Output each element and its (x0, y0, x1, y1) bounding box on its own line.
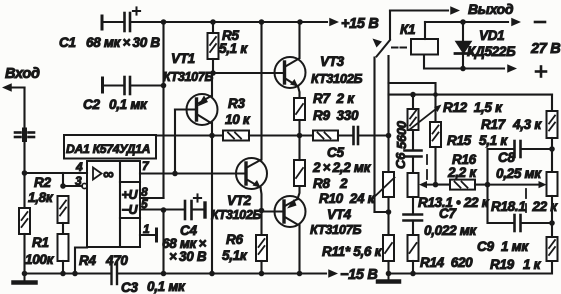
wire vertical from +15 rail down to op-amp pin 8 jog (162, 22, 164, 198)
junction 27V minus rail / VD1 (460, 19, 466, 25)
junction bridge node (485, 182, 491, 188)
node VT2 emitter / VT4 base / R6 (259, 208, 265, 214)
wire R7 to R9 node (298, 120, 300, 136)
wiper arrow of R13.1 (423, 184, 436, 186)
wire from C2 to C-line junction (131, 84, 164, 86)
svg-text:2,2 к: 2,2 к (447, 165, 477, 180)
wire VT2 collector up to +15 rail (260, 22, 262, 160)
svg-text:1 мк: 1 мк (501, 239, 529, 254)
capacitor C3 (112, 263, 118, 284)
wire R2 to R4 (62, 223, 64, 234)
svg-text:VT2: VT2 (227, 193, 252, 208)
polarity plus of C1 (133, 7, 140, 14)
resistor R18.1 (pot section) (547, 172, 558, 196)
arrow Vyhod output (450, 6, 460, 14)
resistor R17 (547, 111, 558, 138)
wire R6 to bottom rail (260, 261, 262, 274)
arrow -15V rail end (328, 269, 338, 277)
relay K1 contact blade (377, 40, 391, 57)
ground symbol right (378, 274, 399, 282)
junction bottom rail / VT1 collector line (209, 271, 215, 277)
resistor R13.1 (pot section) (408, 173, 419, 197)
capacitor C9 (515, 215, 521, 231)
wire R3 row from DA1 label box to R3 (156, 134, 223, 136)
svg-text:0,022 мк: 0,022 мк (424, 223, 477, 238)
wire C4 to end bar (193, 208, 204, 210)
wire R10 top (387, 136, 389, 173)
wiper arrow of R18.1 (488, 184, 543, 186)
svg-text:68 мк × 30 В: 68 мк × 30 В (86, 35, 160, 50)
wire VT1 emitter lead up (211, 73, 213, 96)
wire R11 to right ground rail (387, 261, 389, 274)
transistor VT1 (PNP KT3107B) (176, 94, 218, 125)
wire relay node to R15 branch (389, 83, 436, 95)
wire R14 to right ground rail (412, 261, 414, 274)
svg-text:R19: R19 (490, 257, 515, 272)
svg-text:С8: С8 (498, 150, 515, 165)
op-amp inverting input circle (82, 183, 87, 188)
wire VT2 emitter node to R6 (260, 211, 262, 236)
wire VT3 emitter to R7 (298, 87, 300, 99)
wire R5 to VT1 emitter / VT3 base node (212, 59, 214, 73)
wire R1 to ground (23, 234, 25, 274)
svg-text:R1: R1 (32, 235, 49, 250)
plus terminal label of 27V (536, 67, 546, 77)
wire R9 to C5 (338, 134, 353, 136)
junction top rail / C2-line (161, 19, 167, 25)
svg-text:1 к: 1 к (523, 257, 542, 272)
svg-text:R9 330: R9 330 (313, 108, 359, 123)
resistor R15 (430, 122, 441, 147)
wire VT1 collector down to bottom rail (211, 123, 213, 274)
svg-text:R3: R3 (228, 96, 245, 111)
wire C6 to R13.1 (412, 157, 414, 174)
svg-text:1,8к: 1,8к (28, 190, 54, 205)
wire R17 to C8 node (551, 138, 553, 149)
wire +15V rail terminal bar (101, 16, 104, 29)
wire +15 rail to R5 (212, 22, 214, 33)
resistor R3 (223, 131, 249, 141)
wire output to Vyhod arrow (390, 9, 448, 11)
resistor R10 (383, 172, 394, 197)
wire VD1 anode (462, 22, 464, 42)
resistor R1 (19, 208, 30, 234)
junction filter row / R15 branch (433, 92, 438, 97)
svg-text:R14 620: R14 620 (420, 255, 473, 270)
svg-text:0,25 мк: 0,25 мк (496, 166, 542, 181)
capacitor C7 (404, 215, 423, 221)
junction pin5 wire / C-line lower (161, 207, 167, 213)
svg-text:100к: 100к (25, 252, 55, 267)
svg-text:Вход: Вход (5, 66, 40, 82)
svg-text:Выход: Выход (468, 1, 514, 17)
minus terminal label of 27V (535, 21, 545, 24)
svg-text:∞: ∞ (103, 166, 114, 183)
svg-text:0,1 мк: 0,1 мк (109, 97, 148, 112)
svg-text:С6: С6 (393, 152, 408, 169)
svg-text:4,3 к: 4,3 к (512, 117, 542, 132)
wire VT4 collector down to bottom rail (298, 225, 300, 274)
wire VT2 emitter down (261, 188, 262, 211)
node R7 / R9 / R3 / R8 (297, 133, 303, 139)
svg-text:5600: 5600 (394, 120, 409, 149)
svg-text:4: 4 (75, 160, 83, 174)
wire relay contact line to R10 node (375, 211, 389, 213)
svg-text:С9: С9 (477, 239, 494, 254)
svg-text:КД522Б: КД522Б (467, 44, 516, 59)
junction ground rail / op-amp bottom (72, 271, 78, 277)
op-amp DA1 triangle-infinity symbol (93, 166, 114, 183)
junction op-amp output / VT1 base line (172, 171, 178, 177)
svg-text:C1: C1 (59, 35, 76, 50)
svg-text:КТ3102Б: КТ3102Б (311, 71, 363, 86)
junction 27V plus rail / VD1 (460, 66, 466, 72)
wire R12 to C6 (412, 130, 414, 150)
svg-text:VD1: VD1 (479, 28, 504, 43)
svg-text:+U: +U (122, 188, 139, 202)
wire relay contact fixed terminal up to Vyhod wire (389, 11, 391, 39)
wire op-amp pin 7 output to VT2 base (140, 172, 246, 174)
wire C7 to R14 (412, 221, 414, 236)
junction top rail / R5 (210, 19, 216, 25)
junction bottom rail / VT4 collector (297, 271, 303, 277)
wire op-amp pin 5 to C4 (140, 208, 184, 210)
resistor R11 (383, 235, 394, 261)
wire 27V minus rail (425, 21, 508, 23)
junction ground rail / R4 (60, 271, 66, 277)
svg-text:DA1 К574УД1А: DA1 К574УД1А (66, 142, 150, 156)
wire VD1 cathode (462, 54, 464, 69)
junction top rail / VT3 collector (297, 19, 303, 25)
terminal bar right of C4 (203, 203, 206, 217)
trimmer arrow of R12 (409, 107, 439, 131)
wire wiper row R13.1 to R16 (436, 184, 451, 186)
resistor R9 (313, 131, 338, 141)
svg-text:1: 1 (143, 222, 150, 236)
leader line of R10 label (370, 178, 395, 202)
svg-text:−U: −U (122, 203, 139, 217)
svg-text:КТ3107Б: КТ3107Б (163, 70, 213, 84)
op-amp DA1 inner divider (119, 161, 121, 247)
wire bridge node down to C9 row (488, 185, 514, 223)
svg-text:VT1: VT1 (171, 51, 195, 66)
wire relay contact common down (373, 58, 375, 213)
ground symbol left (14, 274, 36, 283)
relay K1 mechanical link dashes (392, 47, 406, 49)
resistor R14 (408, 235, 419, 261)
wire input vertical down to R1 (23, 88, 25, 209)
wire VT1 base vertical from op-amp output (174, 110, 176, 174)
wire VT1 base horizontal (175, 108, 197, 110)
wire VT3 base from R5/VT1 node (213, 72, 285, 74)
transistor VT2 (NPN KT3102B) (236, 158, 267, 189)
svg-text:27 В: 27 В (530, 41, 560, 57)
wire C8 to R17 column (522, 148, 553, 150)
svg-text:C7: C7 (439, 206, 457, 221)
arrow 27V minus rail (511, 18, 521, 26)
wire +15V rail from input terminal to C1 (102, 21, 123, 23)
junction filter row / R12 (410, 92, 416, 98)
wire R9-node to R8 (298, 136, 300, 161)
junction right ground rail / R11 (386, 271, 392, 277)
wire R4 to ground rail (62, 261, 64, 274)
wire op-amp pin 4 input (25, 172, 88, 174)
gang link dashes left (426, 155, 428, 179)
wire R10 to node (387, 197, 389, 212)
svg-text:2 × 2,2 мк: 2 × 2,2 мк (312, 160, 372, 175)
junction R17 column / C8 (549, 146, 555, 152)
wire filter top row (389, 94, 553, 96)
resistor R5 (208, 33, 219, 59)
svg-text:R6: R6 (226, 232, 243, 247)
op-amp DA1 column divider lower (120, 217, 140, 219)
junction top rail / VT2 collector (259, 19, 265, 25)
capacitor C4 (185, 201, 192, 219)
wire input horizontal (11, 86, 25, 88)
junction C5 wire / R10 line (386, 133, 392, 139)
gang link dashes right (525, 189, 527, 212)
wire into op-amp pin 8 (140, 197, 164, 199)
wire node to R11 (387, 212, 389, 235)
wire from pin4 net down to pin3 node (62, 173, 64, 186)
svg-text:3: 3 (75, 174, 82, 188)
svg-text:× 30 В: × 30 В (169, 249, 207, 264)
resistor R8 (294, 160, 305, 186)
svg-text:R17: R17 (481, 117, 507, 132)
svg-text:R4 470: R4 470 (79, 253, 128, 268)
wire R9 node to R9 body (300, 134, 314, 136)
resistor R16 (450, 180, 475, 190)
wire +15V rail from C1 to arrow (131, 21, 327, 23)
capacitor C2 (125, 77, 131, 94)
polarity plus of C4 (194, 194, 201, 201)
svg-text:+15 В: +15 В (341, 16, 379, 32)
wire R12 top (412, 95, 414, 109)
svg-text:КТ3107Б: КТ3107Б (310, 222, 362, 237)
op-amp U1 DA1 body (87, 161, 140, 247)
wire C8 node to R18.1 (551, 149, 553, 172)
resistor R2 (58, 196, 69, 223)
op-amp DA1 column divider upper (120, 181, 140, 183)
connector feed-through symbol on input line (15, 130, 34, 140)
node R5 / VT3 base / VT1 emitter (210, 70, 216, 76)
capacitor C6 (405, 151, 422, 157)
wire C2 terminal bar (101, 78, 104, 92)
junction R19 column / C9 (549, 220, 555, 226)
wire op-amp pin 3 input (63, 185, 82, 187)
wire R15 to wiper row (434, 147, 436, 185)
wire C9 to R19 column (522, 222, 553, 224)
capacitor C5 (354, 127, 359, 144)
wire VT3 collector up to +15 rail (298, 22, 300, 58)
arrow input (points left) (2, 83, 12, 91)
wire relay blade to filter column (387, 56, 389, 136)
svg-text:R12 1,5 к: R12 1,5 к (443, 100, 503, 115)
svg-text:R7 2 к: R7 2 к (313, 91, 355, 106)
svg-text:0,1 мк: 0,1 мк (147, 279, 186, 294)
terminal bar on pin 1 (155, 229, 158, 241)
wire op-amp bottom to ground rail (75, 248, 87, 274)
svg-text:−15 В: −15 В (340, 267, 378, 283)
svg-text:R11* 5,6 к: R11* 5,6 к (322, 244, 383, 259)
svg-text:5,1 к: 5,1 к (479, 133, 508, 148)
wire VT4 emitter up to R8 (298, 186, 300, 199)
svg-text:5,1к: 5,1к (222, 248, 248, 263)
wire R3 to R7 node (249, 134, 300, 136)
svg-text:VT4: VT4 (327, 207, 352, 222)
junction bottom rail / C-line (161, 271, 167, 277)
svg-text:R10 24 к: R10 24 к (319, 191, 376, 206)
resistor R12 (408, 109, 419, 130)
svg-text:C5: C5 (327, 145, 344, 160)
capacitor C1 (125, 13, 131, 31)
svg-text:C2: C2 (83, 97, 100, 112)
junction ground rail / input line (22, 271, 28, 277)
wire relay coil top terminal (424, 22, 426, 39)
svg-text:КТ3102Б: КТ3102Б (211, 208, 261, 222)
wire C-line lower segment to bottom rail (162, 210, 164, 274)
svg-text:R2: R2 (34, 175, 51, 190)
wire R18.1 to C9 node (551, 196, 553, 223)
wire bottom rail from C3 to -15V arrow (118, 272, 326, 274)
wire filter row right corner down to R17 (551, 95, 553, 111)
arrow 27V plus rail (507, 64, 517, 72)
wire from C2 terminal to C2 (103, 84, 124, 86)
resistor R19 (547, 237, 558, 261)
svg-text:R15: R15 (447, 133, 472, 148)
node R10 / R11 / relay line (386, 209, 392, 215)
relay K1 coil (411, 39, 438, 55)
wire R15 branch down (434, 95, 436, 122)
junction wiper row / R15 (433, 182, 439, 188)
wire op-amp pin 1 (140, 234, 156, 236)
op-amp DA1 label box (64, 135, 156, 159)
wire bottom rail left segment (25, 272, 111, 274)
junction input line / pin4 wire (22, 170, 28, 176)
resistor R6 (256, 235, 267, 261)
wire R13.1 to C7 (412, 197, 414, 215)
transistor VT3 (NPN KT3102B) (275, 57, 306, 88)
svg-text:10 к: 10 к (225, 112, 251, 127)
junction bottom rail / R6 (259, 271, 265, 277)
resistor R4 (58, 234, 69, 261)
resistor R7 (294, 98, 305, 120)
diode VD1 (KD522B) (455, 42, 472, 54)
capacitor C8 (515, 141, 521, 157)
wire bridge node up to C8 row (488, 149, 514, 185)
svg-text:C3: C3 (121, 280, 138, 294)
wire relay coil bottom terminal (424, 55, 504, 69)
junction C2 / vertical C-line (161, 83, 167, 89)
svg-text:R18.1 22 к: R18.1 22 к (491, 199, 558, 214)
arrow +15V rail end (329, 18, 339, 26)
junction pin3 node / R2 (60, 183, 66, 189)
svg-text:К1: К1 (400, 22, 415, 37)
wire C9 node to R19 (551, 223, 553, 237)
transistor VT4 (PNP KT3107B) (263, 196, 306, 227)
svg-text:VT3: VT3 (320, 54, 345, 69)
svg-text:R8 2: R8 2 (313, 176, 348, 191)
wire R16 to bridge node (475, 184, 488, 186)
junction VT1 collector / R3 row (209, 133, 215, 139)
wire C5 to R10 line (359, 134, 389, 136)
wire R19 down to right ground rail (389, 261, 553, 274)
junction right ground rail / R14 (410, 271, 416, 277)
svg-text:5,1 к: 5,1 к (219, 41, 248, 56)
